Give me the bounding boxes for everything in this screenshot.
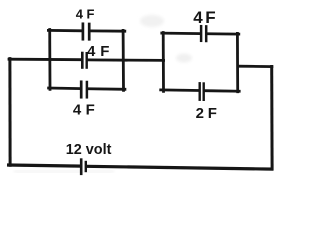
wire right box left edge [162, 33, 165, 92]
wire right box bottom side, left part [161, 89, 199, 92]
wire right box right edge [236, 33, 239, 91]
scan smudge left of right box [176, 54, 192, 63]
svg-text:2F: 2F [196, 105, 217, 122]
wire left feed: outer-left to middle capacitor [9, 58, 80, 61]
battery B1 12 volt: short plate [85, 162, 87, 171]
wire bottom-left segment (battery left lead) [9, 165, 80, 166]
wire left box top side, left part [48, 29, 81, 32]
svg-text:4F: 4F [193, 8, 215, 27]
svg-text:4F: 4F [76, 7, 95, 22]
capacitor C2 4F middle: right plate [85, 53, 87, 67]
wire right box right edge to outer-right vertical [238, 65, 272, 68]
capacitor C1 4F top: right plate [88, 24, 91, 39]
capacitor C4 4F top-right: left plate [200, 26, 203, 41]
scan shadow under bottom wire [14, 171, 114, 173]
wire outer-right vertical [270, 67, 273, 170]
capacitor C3 4F bottom: left plate [80, 82, 83, 97]
svg-text:4F: 4F [87, 43, 109, 60]
svg-text:12 volt: 12 volt [66, 142, 112, 158]
scan smudge near top middle [140, 15, 164, 27]
wire left box top side, right part [91, 29, 125, 32]
wire left box left edge [48, 30, 51, 90]
wire left box bottom side, left part [49, 87, 80, 90]
wire left box right edge [122, 30, 125, 90]
capacitor C1 4F top: left plate [82, 24, 85, 39]
wire right box bottom side, right part [205, 89, 239, 92]
wire right box top side, left part [162, 32, 200, 35]
capacitor C2 4F middle: left plate [81, 53, 84, 68]
svg-text:4F: 4F [73, 101, 95, 118]
battery B1 12 volt: long plate [80, 160, 83, 174]
wire left box bottom side, right part [88, 87, 125, 90]
capacitor C5 2F bottom-right: left plate [198, 83, 200, 99]
wire bottom-right segment (battery right lead) [87, 166, 272, 169]
wire right box top side, right part [208, 32, 239, 35]
wire middle: C2 to right box left edge [88, 59, 164, 62]
wire outer-left vertical (node A to battery +) [8, 59, 11, 166]
capacitor C4 4F top-right: right plate [205, 26, 208, 41]
capacitor C3 4F bottom: right plate [86, 82, 89, 97]
capacitor C5 2F bottom-right: right plate [202, 84, 204, 100]
